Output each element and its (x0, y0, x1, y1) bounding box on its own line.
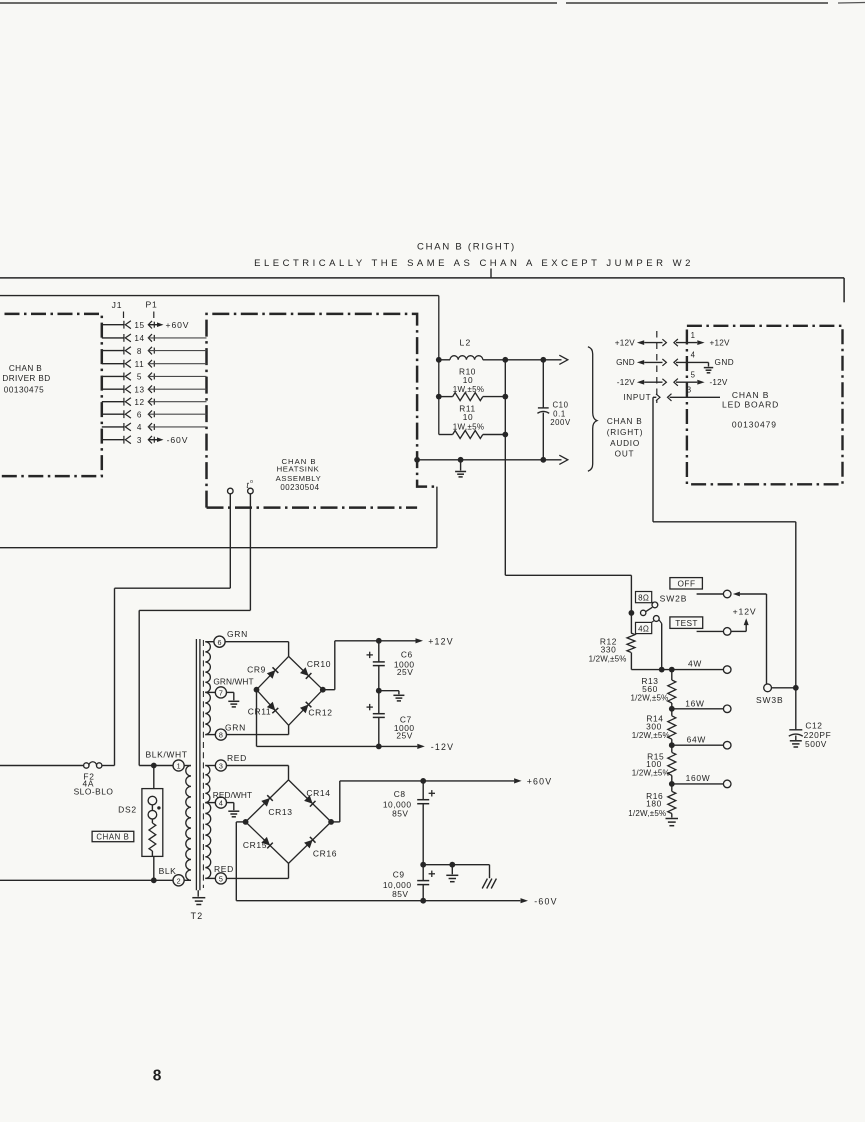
svg-text:(RIGHT): (RIGHT) (607, 428, 644, 437)
svg-text:+60V: +60V (166, 320, 190, 330)
svg-text:GRN: GRN (227, 629, 248, 639)
svg-text:ELECTRICALLY THE SAME AS CHAN: ELECTRICALLY THE SAME AS CHAN A EXCEPT J… (254, 258, 694, 269)
svg-text:SW3B: SW3B (756, 695, 784, 705)
svg-text:CHAN B: CHAN B (9, 364, 42, 373)
svg-text:CR15: CR15 (243, 840, 267, 850)
svg-text:GND: GND (616, 358, 635, 367)
svg-text:6: 6 (137, 410, 142, 419)
svg-text:14: 14 (134, 334, 144, 343)
svg-text:GRN: GRN (225, 723, 246, 733)
svg-text:-60V: -60V (167, 435, 189, 445)
svg-text:BLK: BLK (159, 866, 177, 876)
svg-text:CHAN B: CHAN B (96, 833, 129, 842)
svg-text:+12V: +12V (733, 606, 757, 616)
svg-text:11: 11 (135, 360, 145, 369)
svg-text:100: 100 (646, 759, 662, 769)
svg-text:C10: C10 (552, 401, 568, 410)
svg-text:T2: T2 (191, 911, 204, 921)
svg-text:560: 560 (642, 684, 658, 694)
svg-text:GRN/WHT: GRN/WHT (213, 677, 253, 687)
svg-text:00130475: 00130475 (4, 385, 44, 394)
svg-text:180: 180 (646, 798, 662, 808)
svg-text:1/2W,±5%: 1/2W,±5% (630, 694, 668, 703)
svg-text:J1: J1 (112, 300, 123, 310)
svg-text:3: 3 (219, 762, 223, 771)
svg-text:GND: GND (715, 358, 735, 367)
svg-text:3: 3 (687, 386, 691, 395)
svg-text:OFF: OFF (677, 579, 695, 589)
svg-text:4: 4 (137, 423, 142, 432)
svg-text:-12V: -12V (431, 742, 454, 752)
svg-text:SW2B: SW2B (660, 594, 688, 604)
svg-text:-12V: -12V (710, 378, 728, 387)
svg-text:AUDIO: AUDIO (610, 439, 640, 448)
svg-text:8: 8 (153, 1068, 162, 1085)
svg-text:1W,±5%: 1W,±5% (453, 423, 485, 432)
svg-text:RED: RED (214, 864, 234, 874)
svg-text:85V: 85V (392, 889, 408, 899)
svg-text:4: 4 (219, 799, 223, 808)
svg-text:12: 12 (134, 398, 144, 407)
svg-text:CR11: CR11 (248, 707, 272, 717)
svg-text:CHAN B: CHAN B (607, 417, 643, 426)
svg-text:1/2W,±5%: 1/2W,±5% (628, 809, 666, 818)
svg-text:OUT: OUT (615, 450, 635, 459)
svg-text:5: 5 (219, 875, 223, 884)
svg-text:2: 2 (177, 876, 181, 885)
svg-text:4: 4 (691, 351, 696, 360)
svg-text:3: 3 (137, 436, 142, 445)
svg-text:P1: P1 (145, 300, 157, 310)
svg-text:CR13: CR13 (268, 807, 292, 817)
svg-text:INPUT: INPUT (623, 393, 651, 402)
svg-text:LED BOARD: LED BOARD (722, 400, 779, 410)
svg-text:+60V: +60V (527, 777, 553, 787)
svg-text:8Ω: 8Ω (638, 593, 649, 602)
svg-text:1/2W,±5%: 1/2W,±5% (632, 731, 670, 740)
svg-text:85V: 85V (392, 808, 408, 818)
svg-text:10: 10 (463, 375, 473, 385)
svg-text:+12V: +12V (710, 338, 730, 347)
svg-text:+12V: +12V (428, 636, 454, 646)
svg-text:DRIVER BD: DRIVER BD (2, 374, 50, 383)
svg-text:16W: 16W (685, 698, 704, 708)
svg-text:CR14: CR14 (306, 788, 330, 798)
svg-text:1W,±5%: 1W,±5% (453, 385, 485, 394)
svg-text:500V: 500V (805, 739, 827, 749)
svg-text:00230504: 00230504 (280, 483, 319, 492)
svg-text:CR12: CR12 (308, 708, 332, 718)
svg-text:330: 330 (601, 645, 617, 655)
svg-text:o: o (250, 479, 253, 485)
svg-text:10: 10 (463, 412, 473, 422)
svg-text:-60V: -60V (534, 897, 557, 907)
svg-text:+12V: +12V (615, 338, 635, 347)
svg-text:1: 1 (177, 762, 181, 771)
svg-text:CR16: CR16 (313, 848, 337, 858)
svg-text:HEATSINK: HEATSINK (277, 465, 320, 474)
svg-text:160W: 160W (686, 773, 711, 783)
svg-text:200V: 200V (550, 418, 571, 427)
svg-text:CR9: CR9 (247, 665, 266, 675)
svg-text:5: 5 (137, 373, 142, 382)
svg-text:6: 6 (218, 638, 222, 647)
svg-text:25V: 25V (396, 731, 412, 741)
svg-text:L2: L2 (460, 338, 472, 348)
svg-text:8: 8 (219, 731, 223, 740)
svg-text:8: 8 (137, 347, 142, 356)
svg-text:15: 15 (134, 321, 144, 330)
svg-text:1: 1 (691, 331, 695, 340)
svg-text:5: 5 (691, 370, 696, 379)
svg-text:TEST: TEST (675, 618, 697, 628)
svg-text:ASSEMBLY: ASSEMBLY (276, 474, 322, 483)
svg-text:300: 300 (646, 721, 662, 731)
svg-text:C9: C9 (393, 870, 405, 880)
svg-text:25V: 25V (397, 667, 413, 677)
svg-text:RED: RED (227, 753, 247, 763)
svg-text:4Ω: 4Ω (638, 624, 649, 633)
svg-text:CHAN B (RIGHT): CHAN B (RIGHT) (417, 241, 516, 252)
svg-text:-12V: -12V (617, 378, 635, 387)
svg-text:13: 13 (134, 385, 144, 394)
svg-text:BLK/WHT: BLK/WHT (146, 750, 188, 760)
svg-text:C6: C6 (401, 650, 413, 660)
svg-text:C8: C8 (394, 789, 406, 799)
svg-text:1/2W,±5%: 1/2W,±5% (589, 655, 627, 664)
svg-text:CR10: CR10 (307, 659, 331, 669)
svg-text:64W: 64W (687, 735, 706, 745)
svg-text:4W: 4W (688, 658, 702, 668)
svg-text:7: 7 (219, 689, 223, 698)
svg-text:SLO-BLO: SLO-BLO (74, 786, 114, 796)
svg-text:DS2: DS2 (118, 804, 137, 814)
svg-text:1/2W,±5%: 1/2W,±5% (632, 769, 670, 778)
svg-text:00130479: 00130479 (732, 420, 777, 430)
svg-text:RED/WHT: RED/WHT (213, 790, 252, 800)
